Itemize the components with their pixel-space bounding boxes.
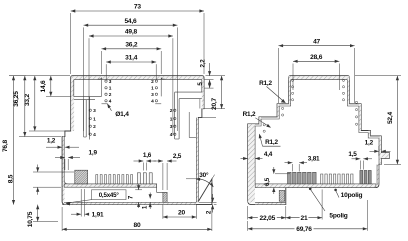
hatched left head wall	[71, 80, 74, 131]
svg-text:6,5: 6,5	[264, 177, 271, 186]
dimension 6,5	[273, 167, 275, 174]
hatched lower left wall	[63, 137, 65, 202]
svg-text:1,9: 1,9	[89, 149, 98, 156]
dimension 5	[209, 80, 211, 89]
svg-text:10polig: 10polig	[341, 192, 363, 199]
svg-text:22,05: 22,05	[260, 215, 276, 222]
svg-text:1,2: 1,2	[47, 138, 56, 145]
svg-text:52,4: 52,4	[387, 111, 394, 124]
block tooth	[75, 170, 88, 184]
30 deg slope extension line	[212, 175, 215, 179]
dimension 52,4	[396, 76, 398, 165]
right slot floor	[175, 138, 179, 140]
left slot wall c	[83, 100, 85, 137]
dimension 21	[286, 217, 322, 219]
dimension 1,9	[64, 159, 66, 170]
dimension 49,8	[89, 35, 173, 37]
svg-text:8,5: 8,5	[8, 174, 15, 183]
svg-text:20,7: 20,7	[211, 97, 218, 110]
right inner shelf lower	[179, 98, 202, 100]
svg-text:76,8: 76,8	[2, 139, 9, 152]
svg-text:4,4: 4,4	[264, 151, 273, 158]
svg-text:2,5: 2,5	[173, 153, 182, 160]
right view hatch top wall	[289, 76, 350, 80]
right inner shelf	[175, 91, 202, 93]
bottom slab hatch	[64, 203, 196, 205]
svg-text:21: 21	[301, 215, 308, 222]
right view hatch left shoulder	[248, 124, 255, 202]
svg-text:2,2: 2,2	[199, 59, 206, 68]
right view pin column head right	[342, 79, 344, 101]
svg-text:36,2: 36,2	[125, 42, 138, 49]
comb carrier band	[64, 184, 157, 187]
dimension 2 right foot	[199, 201, 217, 203]
upper cavity wall right	[161, 78, 165, 97]
right view dark contact teeth	[288, 172, 317, 184]
svg-text:R1,2: R1,2	[259, 80, 272, 87]
left inner shelf	[74, 96, 102, 98]
right view pin pair step left	[263, 124, 265, 126]
dimension 1	[149, 193, 151, 199]
dimension 54,6	[84, 24, 178, 26]
svg-text:47: 47	[313, 38, 320, 45]
dimension 1,91	[80, 189, 82, 217]
svg-text:20: 20	[178, 210, 185, 217]
dimension 80	[62, 228, 212, 230]
right view pin column mid right	[355, 101, 357, 125]
left inner shelf lower	[74, 99, 95, 101]
right view inner staircase right	[347, 80, 379, 165]
dimension 76,8	[13, 76, 15, 205]
upper cavity wall left	[98, 78, 102, 97]
dimension 4,4	[241, 158, 248, 160]
svg-text:69,76: 69,76	[296, 226, 312, 233]
dimension 7	[135, 189, 142, 191]
dimension 2,5	[162, 163, 164, 190]
svg-text:1,5: 1,5	[348, 151, 357, 158]
pin row lower left with numbers 3 1 2 4	[89, 108, 96, 138]
svg-text:73: 73	[134, 4, 141, 11]
dimension 47	[279, 45, 355, 47]
band step edge	[157, 184, 163, 192]
dimension 2,2	[209, 63, 211, 76]
right view inner top line	[291, 79, 348, 81]
svg-text:33,2: 33,2	[24, 93, 31, 106]
dimension 22,05	[248, 217, 286, 219]
hatched bottom right wall	[196, 118, 198, 202]
housing profile right view outline	[248, 76, 390, 205]
dimension 36,25	[24, 76, 26, 137]
hatched right head wall	[202, 80, 204, 109]
right view inner staircase left	[255, 80, 291, 184]
inner top line	[74, 79, 202, 81]
middle teeth	[137, 173, 152, 184]
dimension 1,5	[359, 161, 361, 170]
left slot floor	[84, 136, 87, 138]
svg-text:1,91: 1,91	[92, 212, 104, 219]
30 deg arc	[196, 179, 213, 187]
pin row lower right with numbers 2 1 3 4	[170, 108, 176, 138]
dimension 33,2	[34, 76, 36, 131]
comb teeth row	[96, 175, 133, 184]
svg-text:1,6: 1,6	[143, 152, 152, 159]
right view hatch head right wall	[347, 76, 349, 104]
right slot wall a	[178, 99, 180, 139]
svg-text:R1,2: R1,2	[265, 139, 278, 146]
bottom slab	[62, 202, 212, 204]
housing profile left view outer outline	[62, 76, 212, 205]
pin row upper right with numbers 2 1 3 4	[151, 79, 157, 105]
dimension 1,2 wall	[46, 146, 55, 148]
right view hatch right steps	[359, 104, 361, 131]
svg-text:1,2: 1,2	[365, 140, 374, 147]
svg-text:31,4: 31,4	[125, 55, 138, 62]
svg-text:0,5x45°: 0,5x45°	[99, 192, 120, 199]
hatched top wall	[71, 76, 203, 79]
svg-text:5polig: 5polig	[329, 213, 347, 220]
right view pin column mid left	[282, 101, 284, 116]
right view band	[255, 184, 376, 188]
right view pin column head left	[292, 79, 294, 101]
svg-text:3,81: 3,81	[308, 156, 320, 163]
svg-text:10,75: 10,75	[27, 211, 34, 227]
dimension 1,2 right wall	[378, 146, 380, 156]
right view wall inner below shoulder	[376, 165, 378, 186]
svg-text:Ø1,4: Ø1,4	[115, 111, 129, 118]
dimension 20	[163, 216, 197, 218]
right slot wall b	[174, 92, 176, 139]
right head wall inner lower	[199, 99, 201, 109]
30 deg arc arrows	[196, 178, 201, 181]
right view hatch head left wall	[289, 76, 291, 104]
right slot wall c	[188, 112, 190, 138]
lower left wall inner line	[64, 137, 68, 184]
dimension 8,5	[37, 165, 39, 173]
label diameter 1,4	[107, 104, 111, 111]
dimension 69,76	[248, 228, 368, 230]
dimension 28,6	[293, 60, 339, 62]
upper cavity shelf right	[155, 103, 161, 105]
right view tall teeth	[360, 170, 371, 184]
dimension 31,4	[106, 61, 156, 63]
left slot wall a	[85, 100, 87, 137]
svg-text:14,6: 14,6	[40, 80, 47, 93]
upper cavity shelf left	[102, 103, 108, 105]
bottom right wall inner line	[195, 118, 197, 203]
inner left wall line	[73, 80, 75, 97]
dimension 20,7	[221, 76, 223, 109]
chamfer horizontal ref	[186, 178, 197, 180]
support pillar	[163, 192, 167, 202]
right view foot floor line	[255, 201, 286, 203]
svg-text:28,6: 28,6	[310, 54, 323, 61]
svg-text:80: 80	[134, 222, 141, 229]
svg-text:49,8: 49,8	[125, 29, 138, 36]
svg-text:36,25: 36,25	[13, 91, 20, 107]
dimension 36,2	[102, 48, 162, 50]
right view hanging tooth	[279, 190, 285, 201]
svg-text:R1,2: R1,2	[243, 111, 256, 118]
pin row upper left with numbers 3 1 2 4	[105, 79, 112, 105]
dimension 10,75	[37, 205, 39, 222]
svg-text:30°: 30°	[199, 171, 209, 179]
dimension 3,81	[291, 164, 293, 172]
dimension 73	[71, 10, 204, 12]
dimension 1,6	[142, 163, 144, 171]
dimension 14,6	[50, 76, 52, 97]
note 0,5x45 box	[92, 190, 127, 200]
svg-text:54,6: 54,6	[124, 18, 137, 25]
right view white comb teeth	[321, 174, 353, 184]
left slot wall b	[89, 97, 91, 140]
inner right wall line	[201, 80, 203, 93]
